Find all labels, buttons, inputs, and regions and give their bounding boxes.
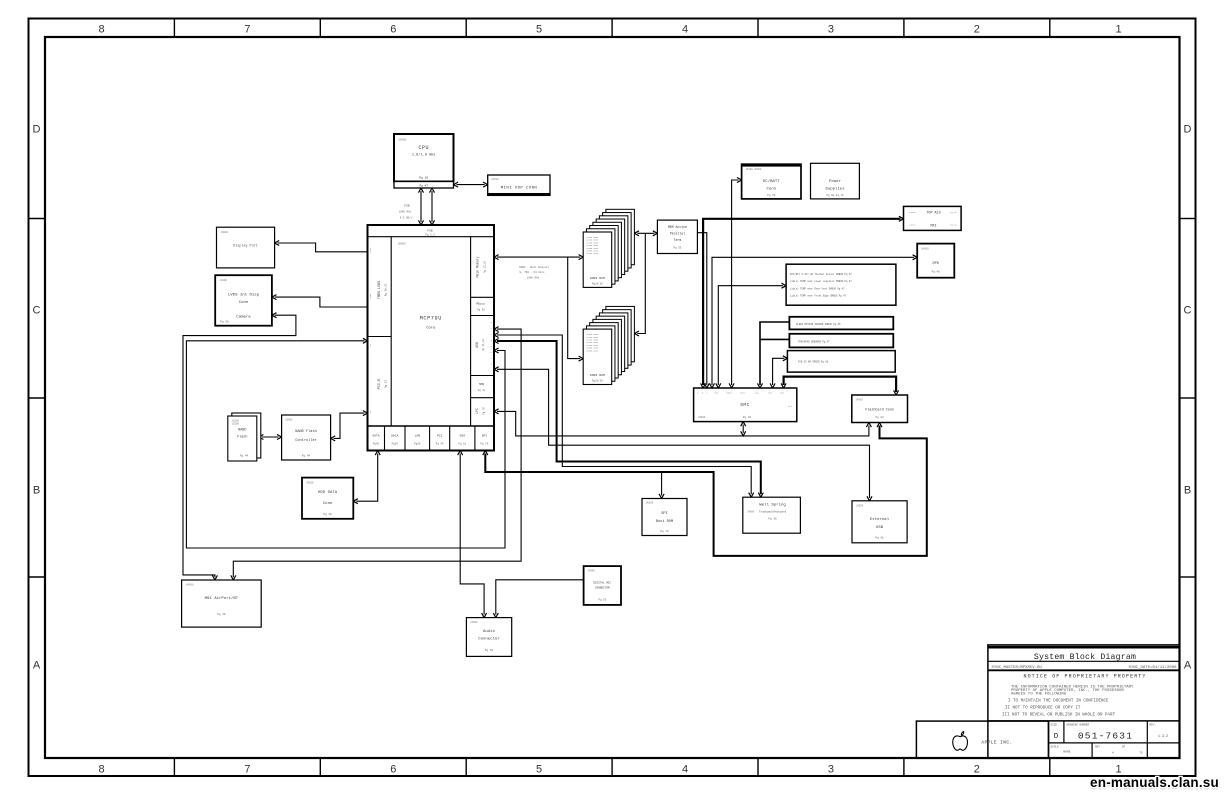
svg-text:Display Port: Display Port [233, 244, 257, 249]
svg-text:Pg 44: Pg 44 [302, 455, 311, 458]
svg-text:Well Spring: Well Spring [759, 503, 786, 508]
svg-text:HDD SATA: HDD SATA [318, 491, 338, 495]
svg-text:Pg 30: Pg 30 [477, 309, 485, 312]
svg-text:FlashCard Conn: FlashCard Conn [865, 408, 894, 413]
svg-text:Conn: Conn [766, 188, 776, 192]
svg-text:MEM Active: MEM Active [668, 225, 687, 229]
svg-text:5: 5 [536, 764, 542, 776]
svg-text:NAND: NAND [238, 429, 246, 433]
svg-text:Pg 41: Pg 41 [875, 537, 884, 540]
svg-text:3: 3 [828, 24, 834, 36]
svg-text:Pg 2,3: Pg 2,3 [425, 234, 435, 237]
svg-text:Pg 70: Pg 70 [483, 407, 486, 415]
svg-text:U4000: U4000 [922, 248, 930, 251]
svg-text:J4100: J4100 [220, 279, 228, 282]
svg-text:U2200: U2200 [232, 423, 240, 426]
svg-text:Pg 48: Pg 48 [932, 271, 940, 274]
svg-text:FSB: FSB [427, 229, 433, 232]
svg-text:AGREES TO THE FOLLOWING: AGREES TO THE FOLLOWING [1011, 693, 1067, 697]
svg-text:8: 8 [98, 24, 104, 36]
svg-text:Pg 30: Pg 30 [220, 321, 229, 324]
svg-text:Audio: Audio [483, 629, 496, 634]
svg-text:1.3.2: 1.3.2 [1158, 735, 1168, 739]
svg-text:APPLE INC.: APPLE INC. [981, 741, 1012, 746]
svg-text:SYNC_DATE=01/11/2008: SYNC_DATE=01/11/2008 [1128, 665, 1177, 670]
svg-text:LVDS Int Disp: LVDS Int Disp [228, 293, 260, 298]
svg-text:NONE: NONE [1063, 751, 1070, 754]
svg-text:Pg 82: Pg 82 [743, 416, 752, 419]
svg-text:SMC: SMC [740, 402, 750, 408]
svg-text:Lid(s) TEMP near Rear Vent: Lid(s) TEMP near Rear Vent SMBUS Pg 47 [790, 287, 845, 290]
svg-text:NOTICE OF PROPRIETARY PROPERTY: NOTICE OF PROPRIETARY PROPERTY [1023, 674, 1146, 680]
svg-text:A: A [33, 660, 41, 672]
svg-text:FAN: FAN [780, 392, 785, 395]
svg-text:MCP79U: MCP79U [420, 316, 442, 322]
svg-text:EXT: EXT [788, 405, 793, 408]
svg-text:Pg 39: Pg 39 [950, 224, 957, 227]
svg-text:D: D [1184, 124, 1192, 136]
svg-text:PCI-E: PCI-E [378, 379, 382, 390]
svg-text:Conn: Conn [239, 301, 249, 305]
svg-text:CPU: CPU [418, 145, 429, 151]
svg-text:Pg 25,26: Pg 25,26 [484, 261, 487, 274]
svg-text:Parallel: Parallel [670, 232, 685, 236]
svg-text:J6100,J6900: J6100,J6900 [746, 168, 762, 171]
svg-text:Pg 70: Pg 70 [481, 443, 489, 446]
svg-text:PORT: PORT [369, 293, 372, 299]
svg-text:USB: USB [475, 342, 479, 348]
svg-text:J4300: J4300 [588, 570, 596, 573]
svg-text:SMB: SMB [479, 383, 484, 386]
svg-text:Pg 60,61,78: Pg 60,61,78 [826, 194, 844, 197]
svg-text:I TO MAINTAIN THE DOCUMENT IN: I TO MAINTAIN THE DOCUMENT IN CONFIDENCE [1008, 700, 1109, 704]
svg-text:Connector: Connector [478, 637, 500, 642]
svg-text:NTC/NTC 3.3V/-40 Thermal Senso: NTC/NTC 3.3V/-40 Thermal Sensor SMBUS Pg… [790, 273, 852, 276]
svg-text:TOP A1S: TOP A1S [926, 212, 940, 216]
svg-text:5: 5 [536, 24, 542, 36]
svg-text:1: 1 [1116, 764, 1122, 776]
svg-text:U4900: U4900 [698, 416, 706, 419]
svg-text:Pg50: Pg50 [392, 443, 399, 446]
svg-text:Pg 47: Pg 47 [419, 185, 428, 188]
svg-text:III NOT TO REVEAL OR PUBLISH I: III NOT TO REVEAL OR PUBLISH IN WHOLE OR… [1002, 714, 1116, 718]
svg-text:Camera: Camera [236, 315, 251, 320]
svg-text:Pg 79: Pg 79 [767, 194, 775, 197]
svg-text:Boot ROM: Boot ROM [656, 520, 673, 524]
svg-text:DDR3 RAM: DDR3 RAM [590, 276, 605, 280]
svg-text:ADC: ADC [755, 392, 760, 395]
svg-text:6: 6 [390, 24, 396, 36]
svg-text:MDisp: MDisp [476, 302, 485, 306]
svg-text:DISP: DISP [369, 247, 372, 253]
svg-text:J5100: J5100 [306, 482, 314, 485]
svg-text:Pg 38: Pg 38 [950, 211, 957, 214]
svg-text:CONNECTOR: CONNECTOR [595, 587, 610, 590]
svg-text:1.6/1.8 GHz: 1.6/1.8 GHz [412, 153, 436, 158]
svg-text:U0900: U0900 [399, 139, 407, 142]
svg-text:Pg 40: Pg 40 [323, 513, 332, 516]
svg-text:Pg 70: Pg 70 [660, 530, 669, 533]
svg-text:GSA: GSA [460, 435, 466, 438]
svg-text:J4600: J4600 [856, 399, 864, 402]
svg-text:PCI: PCI [437, 435, 443, 438]
svg-text:U6100: U6100 [646, 502, 654, 505]
svg-text:SYNC_MASTER=MPXREV-BU: SYNC_MASTER=MPXREV-BU [992, 666, 1043, 670]
svg-text:J4500: J4500 [470, 621, 478, 624]
svg-text:Pg 35: Pg 35 [673, 247, 681, 250]
svg-text:U1600 DDR3: U1600 DDR3 [586, 349, 599, 352]
svg-text:Pg 30,31: Pg 30,31 [385, 283, 388, 296]
svg-text:USB: USB [876, 526, 884, 530]
svg-text:4: 4 [682, 24, 688, 36]
svg-text:U5000: U5000 [398, 243, 406, 246]
svg-text:B: B [33, 485, 40, 497]
svg-text:J4200: J4200 [856, 505, 864, 508]
svg-text:U4500: U4500 [186, 584, 194, 587]
svg-text:J4800: J4800 [747, 511, 755, 514]
svg-text:J4000: J4000 [221, 231, 229, 234]
svg-text:Supplies: Supplies [825, 187, 845, 192]
svg-text:Pg50: Pg50 [414, 443, 421, 446]
svg-text:LAN: LAN [415, 435, 421, 438]
svg-text:4: 4 [682, 764, 688, 776]
svg-text:Pg 44: Pg 44 [240, 455, 249, 458]
svg-text:J4500: J4500 [909, 211, 916, 214]
svg-text:SPI: SPI [661, 512, 667, 516]
svg-text:PWM: PWM [768, 392, 773, 395]
svg-text:System Block Diagram: System Block Diagram [1034, 652, 1136, 662]
svg-text:SCALE: SCALE [1051, 745, 1059, 748]
svg-text:REV.: REV. [1150, 723, 1156, 726]
svg-text:U2000: U2000 [286, 419, 294, 422]
svg-text:Pg 46: Pg 46 [217, 613, 226, 616]
svg-text:SMB: SMB [714, 392, 719, 395]
svg-text:FAN 25 MA SPEED Pg 60: FAN 25 MA SPEED Pg 60 [798, 361, 829, 364]
svg-text:7: 7 [244, 24, 250, 36]
svg-text:Pg 45: Pg 45 [436, 443, 444, 446]
svg-text:II NOT TO REPRODUCE OR COPY IT: II NOT TO REPRODUCE OR COPY IT [1005, 707, 1081, 711]
svg-text:8, 790 - 64 bits: 8, 790 - 64 bits [520, 270, 545, 274]
svg-text:8.5 GB/s: 8.5 GB/s [400, 216, 413, 220]
svg-text:Trackpad/Keyboard: Trackpad/Keyboard [759, 510, 787, 514]
svg-text:Controller: Controller [295, 438, 317, 443]
svg-text:SIZE: SIZE [1051, 723, 1058, 726]
svg-text:051-7631: 051-7631 [1078, 731, 1133, 742]
svg-text:1: 1 [1116, 24, 1122, 36]
svg-text:Pg 36: Pg 36 [769, 518, 777, 521]
svg-text:Lid(s) TEMP near power supplie: Lid(s) TEMP near power supplies SMBUS Pg… [790, 280, 852, 283]
svg-text:Pg 32: Pg 32 [385, 380, 388, 388]
svg-text:Core: Core [426, 326, 436, 331]
svg-text:Pg25/26: Pg25/26 [592, 282, 603, 286]
svg-text:TMDS LVDS: TMDS LVDS [378, 281, 382, 299]
svg-text:Flash: Flash [237, 435, 247, 440]
svg-text:8: 8 [98, 764, 104, 776]
svg-text:D: D [1054, 733, 1059, 741]
svg-text:2: 2 [974, 764, 980, 776]
svg-text:Lid(s) TEMP near Front Edge: Lid(s) TEMP near Front Edge SMBUS Pg 47 [790, 295, 847, 298]
svg-text:SHT: SHT [1095, 745, 1100, 748]
svg-text:Pg 51: Pg 51 [485, 649, 494, 652]
svg-text:NAND Flash: NAND Flash [295, 429, 317, 434]
svg-text:Pg 41,42: Pg 41,42 [482, 339, 485, 352]
svg-text:MINI XDP CONN: MINI XDP CONN [501, 187, 538, 191]
svg-text:OF: OF [1122, 745, 1126, 748]
svg-text:C: C [1184, 305, 1192, 317]
svg-text:BATT: BATT [740, 392, 746, 395]
svg-text:J4700: J4700 [491, 178, 499, 181]
svg-text:LPC: LPC [475, 408, 479, 414]
svg-text:Pg40: Pg40 [373, 443, 380, 446]
svg-text:C: C [33, 305, 41, 317]
svg-text:SMBUS: SMBUS [726, 392, 733, 395]
svg-text:3: 3 [828, 764, 834, 776]
svg-text:SATA: SATA [372, 435, 379, 438]
svg-text:A: A [1184, 660, 1192, 672]
svg-text:D: D [33, 124, 41, 136]
svg-text:Pg 51: Pg 51 [458, 443, 466, 446]
svg-text:FSB: FSB [404, 205, 410, 208]
svg-text:Term: Term [674, 238, 682, 242]
svg-text:SPI: SPI [482, 435, 488, 438]
svg-text:7: 7 [244, 764, 250, 776]
svg-text:DACA: DACA [391, 435, 398, 438]
svg-text:J4510: J4510 [909, 224, 916, 227]
svg-text:M91 AirPort/BT: M91 AirPort/BT [205, 596, 239, 601]
svg-text:DRAWING NUMBER: DRAWING NUMBER [1067, 723, 1090, 726]
svg-text:B: B [1184, 485, 1191, 497]
svg-text:71: 71 [1139, 752, 1143, 755]
svg-text:SLEEP MOTION SENSOR SMBUS Pg: SLEEP MOTION SENSOR SMBUS Pg 45 [796, 323, 841, 326]
svg-text:Pg 53: Pg 53 [598, 599, 606, 602]
svg-text:DPD: DPD [932, 262, 938, 266]
svg-text:Pg25/26: Pg25/26 [592, 379, 603, 383]
svg-text:Power: Power [829, 179, 842, 184]
svg-text:1066 MHz: 1066 MHz [527, 277, 540, 280]
svg-text:TRACKPAD SENSORS Pg 47: TRACKPAD SENSORS Pg 47 [798, 340, 830, 343]
svg-text:U1600 DDR3: U1600 DDR3 [586, 252, 599, 255]
svg-text:Main Memory: Main Memory [476, 256, 480, 277]
svg-text:MXI: MXI [930, 225, 936, 229]
svg-text:en-manuals.clan.su: en-manuals.clan.su [1090, 775, 1219, 790]
svg-text:2: 2 [974, 24, 980, 36]
svg-text:DDR3 - Dual Channel: DDR3 - Dual Channel [519, 265, 549, 269]
svg-text:6: 6 [390, 764, 396, 776]
svg-text:1066 MHz: 1066 MHz [399, 211, 412, 214]
svg-text:4: 4 [1112, 752, 1114, 755]
svg-text:DIGITAL MIC: DIGITAL MIC [593, 582, 611, 585]
svg-text:Pg 47: Pg 47 [478, 389, 486, 392]
svg-text:Pg 20: Pg 20 [419, 177, 428, 180]
svg-text:Pg 43: Pg 43 [876, 416, 884, 419]
svg-text:Conn: Conn [323, 502, 333, 506]
svg-text:External: External [870, 517, 890, 522]
svg-text:DDR3 RAM: DDR3 RAM [590, 373, 605, 377]
svg-text:DC/BATT: DC/BATT [763, 179, 780, 184]
